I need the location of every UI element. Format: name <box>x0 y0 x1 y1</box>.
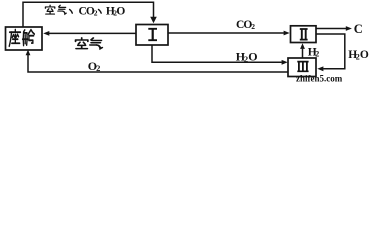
svg-text:zhifen5.com: zhifen5.com <box>296 74 343 83</box>
text 座舱 (cabin label) <box>9 30 20 47</box>
label 空气、CO2、H2O (top) <box>45 5 54 14</box>
wire H2O I->III <box>152 45 282 62</box>
arrowhead into III left (right) <box>282 60 288 65</box>
wire H2O return II->III <box>316 34 345 69</box>
arrowhead C (right) <box>346 26 352 31</box>
wire top loop cabin->I <box>23 2 154 27</box>
box III <box>288 58 316 77</box>
svg-text:CO2: CO2 <box>79 5 98 17</box>
arrowhead into cabin bottom (up) <box>26 50 31 56</box>
arrowhead into III right (left) <box>317 66 323 71</box>
numeral III <box>297 62 308 72</box>
svg-text:CO2: CO2 <box>236 19 255 31</box>
arrowhead into II left (right) <box>284 31 290 36</box>
box I <box>136 25 168 46</box>
arrowhead into I (down) <box>150 17 157 23</box>
box II <box>291 26 317 43</box>
wire C out of II <box>316 28 346 30</box>
wire air I->cabin <box>49 32 136 34</box>
label 空气 (mid) <box>76 38 88 49</box>
wire H2 III->II <box>302 49 304 58</box>
box cabin 座舱 <box>6 27 43 50</box>
svg-text:H2O: H2O <box>106 5 126 17</box>
wire CO2 I->II <box>168 32 284 34</box>
numeral I <box>148 29 157 40</box>
arrowhead into II bottom (up) <box>300 43 305 49</box>
arrowhead into cabin right (left) <box>43 31 49 36</box>
wire O2 III->cabin <box>28 55 288 72</box>
numeral II <box>300 29 308 40</box>
svg-text:C: C <box>354 22 363 36</box>
